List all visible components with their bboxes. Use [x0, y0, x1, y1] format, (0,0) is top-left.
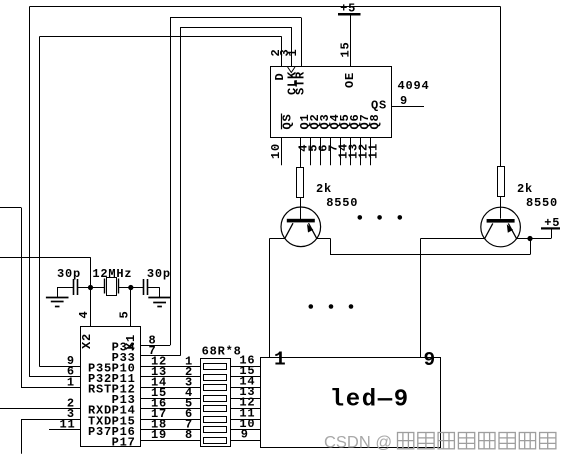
svg-text:QS: QS	[280, 113, 294, 129]
svg-text:9: 9	[424, 349, 436, 371]
svg-text:30p: 30p	[147, 267, 171, 281]
svg-text:1: 1	[67, 375, 75, 389]
svg-text:19: 19	[151, 428, 167, 442]
svg-text:2k: 2k	[316, 182, 332, 196]
svg-text:RST: RST	[88, 383, 112, 397]
svg-text:P37: P37	[88, 425, 112, 439]
svg-text:11: 11	[367, 143, 381, 159]
svg-text:1: 1	[286, 48, 300, 56]
svg-text:9: 9	[241, 427, 249, 441]
svg-text:10: 10	[269, 143, 283, 159]
svg-text:Q8: Q8	[368, 113, 382, 129]
svg-text:12MHz: 12MHz	[92, 267, 132, 281]
svg-text:X1: X1	[124, 334, 138, 350]
svg-text:4094: 4094	[398, 79, 430, 93]
svg-text:QS: QS	[371, 98, 387, 112]
svg-text:P17: P17	[112, 435, 136, 449]
svg-text:68R*8: 68R*8	[202, 345, 242, 359]
svg-text:X2: X2	[80, 333, 94, 349]
svg-text:+5: +5	[340, 1, 356, 15]
svg-text:8: 8	[185, 428, 193, 442]
svg-text:8550: 8550	[326, 196, 358, 210]
svg-text:4: 4	[77, 310, 91, 318]
svg-text:OE: OE	[343, 72, 357, 88]
svg-text:1: 1	[274, 349, 286, 371]
svg-text:+5: +5	[544, 216, 560, 230]
svg-text:5: 5	[118, 310, 132, 318]
svg-text:11: 11	[60, 417, 76, 431]
svg-text:30p: 30p	[57, 267, 81, 281]
svg-text:CSDN @: CSDN @	[324, 434, 392, 452]
svg-text:15: 15	[338, 41, 352, 57]
svg-text:8550: 8550	[526, 196, 558, 210]
svg-text:led—9: led—9	[330, 386, 410, 413]
svg-text:9: 9	[400, 94, 408, 108]
svg-text:2k: 2k	[517, 182, 533, 196]
svg-text:STR: STR	[293, 71, 307, 95]
